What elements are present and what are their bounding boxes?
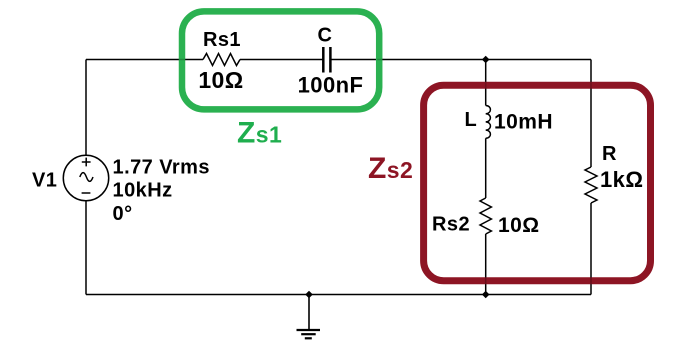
ground <box>297 295 321 339</box>
svg-text:R: R <box>602 143 617 165</box>
wire crossing red box top edge (R branch) <box>590 82 592 90</box>
svg-text:10Ω: 10Ω <box>198 67 243 93</box>
svg-text:10mH: 10mH <box>494 111 553 134</box>
impedance box Zs1 (green rounded rectangle) <box>182 11 379 109</box>
svg-text:C: C <box>318 25 333 47</box>
svg-text:10kHz: 10kHz <box>113 180 173 202</box>
svg-text:L: L <box>465 109 478 131</box>
wire crossing green box right edge <box>377 59 384 61</box>
wire Rs1 to C <box>240 59 323 61</box>
resistor Rs2 <box>480 198 491 234</box>
svg-text:100nF: 100nF <box>298 73 364 98</box>
node junction bottom (L branch) <box>482 291 490 299</box>
wire top horizontal (left of Rs1) <box>86 59 203 61</box>
wire Rs2 to bottom <box>485 234 487 295</box>
wire crossing green box left edge <box>178 59 185 61</box>
resistor R <box>585 167 597 203</box>
svg-text:10Ω: 10Ω <box>498 214 540 237</box>
source V1 (AC) <box>63 155 108 200</box>
wire right vertical (bottom part) <box>590 203 592 295</box>
wire left vertical (bottom part) <box>85 201 87 295</box>
wire crossing red box top edge (L branch) <box>485 82 487 90</box>
wire L to Rs2 <box>485 138 487 198</box>
impedance box Zs2 (dark red rounded rectangle) <box>424 85 651 281</box>
svg-text:Rs2: Rs2 <box>432 214 470 236</box>
capacitor C <box>323 47 330 73</box>
node junction top (L branch) <box>482 56 490 64</box>
svg-text:V1: V1 <box>32 170 57 192</box>
wire left vertical (top part) <box>85 60 87 156</box>
wire bottom horizontal <box>86 294 591 296</box>
wire C to right corner <box>331 59 591 61</box>
svg-text:Zs2: Zs2 <box>368 152 413 185</box>
inductor L <box>486 106 491 139</box>
wire L branch top <box>485 60 487 106</box>
svg-text:0°: 0° <box>113 203 133 225</box>
svg-text:1.77 Vrms: 1.77 Vrms <box>113 157 210 179</box>
resistor Rs1 <box>203 54 240 66</box>
svg-text:1kΩ: 1kΩ <box>600 167 643 192</box>
svg-text:Zs1: Zs1 <box>237 116 282 149</box>
wire crossing red box bottom edge (L branch) <box>485 277 487 285</box>
node junction ground <box>305 291 313 299</box>
wire right vertical (top part) <box>590 60 592 168</box>
svg-text:Rs1: Rs1 <box>203 29 241 51</box>
wire crossing red box bottom edge (R branch) <box>590 277 592 285</box>
